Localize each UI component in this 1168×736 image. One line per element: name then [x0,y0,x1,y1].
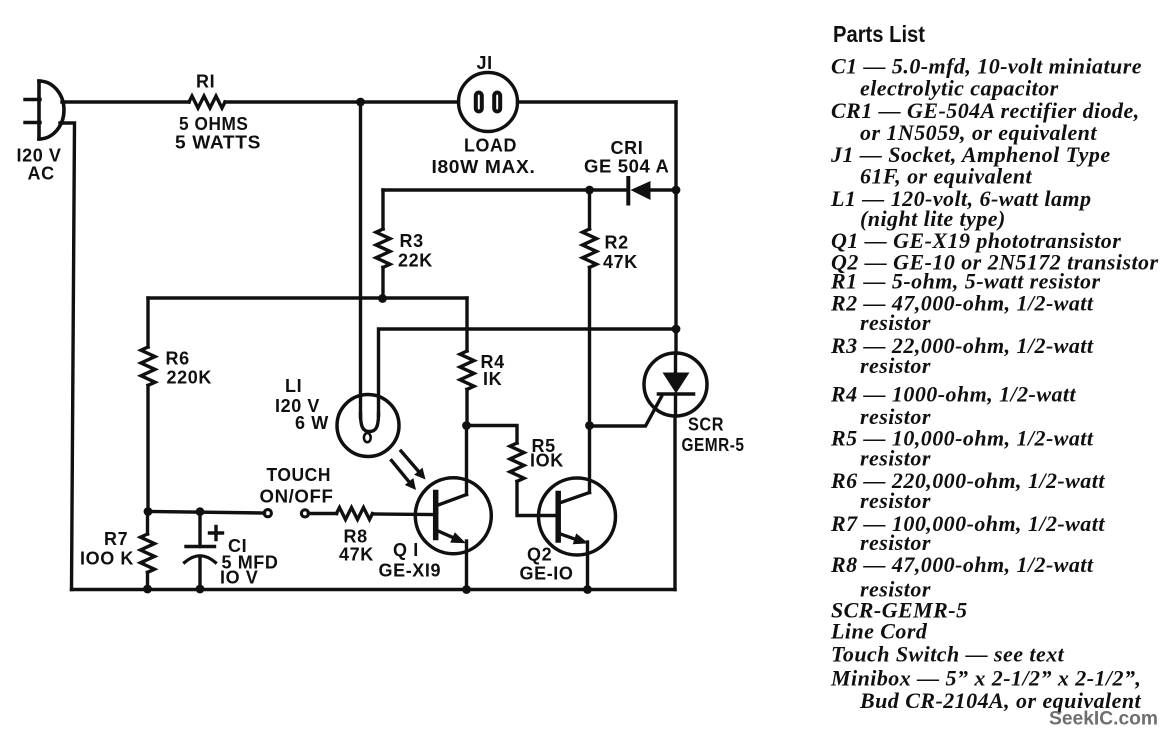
label R2 [603,233,638,273]
svg-text:Q I: Q I [393,540,419,560]
node Q1 emitter junction [462,585,471,594]
svg-text:Touch Switch — see text: Touch Switch — see text [831,642,1065,667]
wire left rail [60,123,75,590]
resistor R7 [141,534,155,572]
light arrow 2 [392,461,417,491]
diode CR1 [628,178,676,204]
svg-text:resistor: resistor [860,310,931,335]
svg-text:LI: LI [285,376,302,396]
light arrow 1 [401,451,426,480]
transistor Q2 [539,426,616,590]
svg-text:IO V: IO V [220,568,258,588]
svg-text:47K: 47K [339,545,374,565]
wire bottom rail [72,588,676,591]
svg-text:C1 — 5.0-mfd, 10-volt miniatur: C1 — 5.0-mfd, 10-volt miniature [831,53,1142,78]
resistor R5 [510,443,524,481]
node A junction dot [356,98,365,107]
wire touch switch left [148,512,265,514]
svg-text:22K: 22K [398,251,433,271]
label R1 [175,72,261,153]
svg-text:R6: R6 [166,349,190,369]
wire R2 top lead [588,190,591,229]
parts list body [830,53,1159,713]
lamp L1 [337,395,399,457]
label J1 [432,53,536,177]
svg-text:RI: RI [196,72,215,92]
label R7 [80,529,134,569]
svg-text:R2: R2 [605,233,629,253]
wire switch to R8 [308,512,336,515]
svg-text:resistor: resistor [860,488,931,513]
svg-text:Q2: Q2 [527,545,552,565]
wire top rail left [62,100,189,103]
wire R8 to Q1 base [373,512,434,516]
svg-text:IOK: IOK [530,451,564,471]
svg-text:GEMR-5: GEMR-5 [682,435,745,455]
switch S1 contact left [264,510,271,517]
svg-text:ON/OFF: ON/OFF [260,487,334,507]
wire top rail mid [225,100,459,103]
svg-text:LOAD: LOAD [464,136,517,156]
label C1 [220,536,279,588]
node R3 bottom junction [378,294,387,303]
label SCR [682,415,745,456]
svg-text:R8: R8 [344,527,368,547]
svg-text:220K: 220K [167,368,212,388]
switch S1 contact right [301,510,308,517]
svg-text:electrolytic capacitor: electrolytic capacitor [860,76,1059,101]
svg-text:SeekIC.com: SeekIC.com [1049,709,1158,730]
node R2 bottom junction [585,421,594,430]
wire R6 bottom lead [146,385,149,511]
wire CR1 left [383,188,627,191]
svg-text:R8 — 47,000-ohm, 1/2-watt: R8 — 47,000-ohm, 1/2-watt [830,552,1094,577]
wire top rail right [518,100,677,103]
label R5 [530,436,564,471]
svg-text:61F, or equivalent: 61F, or equivalent [860,164,1033,189]
label Q1 [379,540,442,581]
label touch switch [260,465,334,507]
resistor R3 [376,229,390,267]
wire lamp left lead [359,102,362,417]
node touch line left junction [144,507,153,516]
wire lamp right lead [379,329,677,415]
wire R3 top lead [381,190,384,229]
svg-text:IOO K: IOO K [80,549,134,569]
wire left mid rail vertical [146,298,149,347]
svg-text:5 WATTS: 5 WATTS [175,133,261,153]
svg-text:GE-XI9: GE-XI9 [379,561,442,581]
wire R3 bottom lead [381,267,384,299]
svg-text:GE 504 A: GE 504 A [584,157,670,177]
label L1 [275,376,329,433]
svg-text:AC: AC [28,164,55,184]
node C1 top junction [196,507,205,516]
node SCR anode junction [672,325,681,334]
svg-text:5 OHMS: 5 OHMS [179,114,249,134]
label R6 [166,349,212,388]
svg-text:6 W: 6 W [295,413,329,433]
resistor R6 [141,347,155,385]
svg-text:IK: IK [483,369,502,389]
svg-text:I20 V: I20 V [17,146,62,166]
node R7 bottom junction [143,585,152,594]
label Q2 [520,545,574,584]
wire SCR gate [590,397,662,427]
svg-text:R3: R3 [400,231,424,251]
resistor R4 [460,351,474,389]
wire R4 bottom lead [465,389,468,425]
svg-text:GE-IO: GE-IO [520,564,574,584]
node C1 bottom junction [196,585,205,594]
SCR U1 [644,353,707,416]
wire R7 bottom lead [146,572,149,589]
socket J1 [459,73,518,132]
resistor R2 [583,229,597,267]
wire R7 top lead [146,512,149,535]
svg-text:JI: JI [477,53,493,73]
svg-text:resistor: resistor [860,446,931,471]
wire horizontal mid rail [148,296,467,299]
label 120V AC [17,146,62,184]
svg-text:R7: R7 [104,529,128,549]
svg-text:CRI: CRI [611,138,644,158]
node Q2 emitter junction [583,585,592,594]
node CR1 right junction [672,186,681,195]
capacitor C1 [185,512,223,590]
node CR1 left junction [585,186,594,195]
svg-text:resistor: resistor [860,353,931,378]
svg-text:TOUCH: TOUCH [267,465,332,485]
svg-text:47K: 47K [603,252,638,272]
resistor R8 [337,508,373,520]
svg-text:Minibox — 5” x 2-1/2” x 2-1/2”: Minibox — 5” x 2-1/2” x 2-1/2”, [830,666,1141,691]
resistor R1 [189,96,225,108]
svg-text:I80W MAX.: I80W MAX. [432,157,536,177]
svg-text:SCR: SCR [688,415,724,435]
label R8 [339,527,374,565]
svg-text:Line Cord: Line Cord [830,619,928,644]
wire R2 bottom lead [588,267,591,425]
transistor Q1 [415,426,491,590]
label CR1 [584,138,670,177]
AC plug P1 [25,81,64,139]
wire R4 top lead [465,298,468,351]
wire right vertical [674,102,677,354]
svg-text:R4 — 1000-ohm, 1/2-watt: R4 — 1000-ohm, 1/2-watt [830,382,1076,407]
svg-text:Parts List: Parts List [833,21,925,47]
node Q1 collector junction [462,421,471,430]
wire SCR cathode [673,416,676,590]
wire R5 bottom lead to Q2 base [517,481,556,515]
label R3 [398,231,433,271]
wire R5 top lead [467,426,518,444]
label R4 [481,352,505,389]
